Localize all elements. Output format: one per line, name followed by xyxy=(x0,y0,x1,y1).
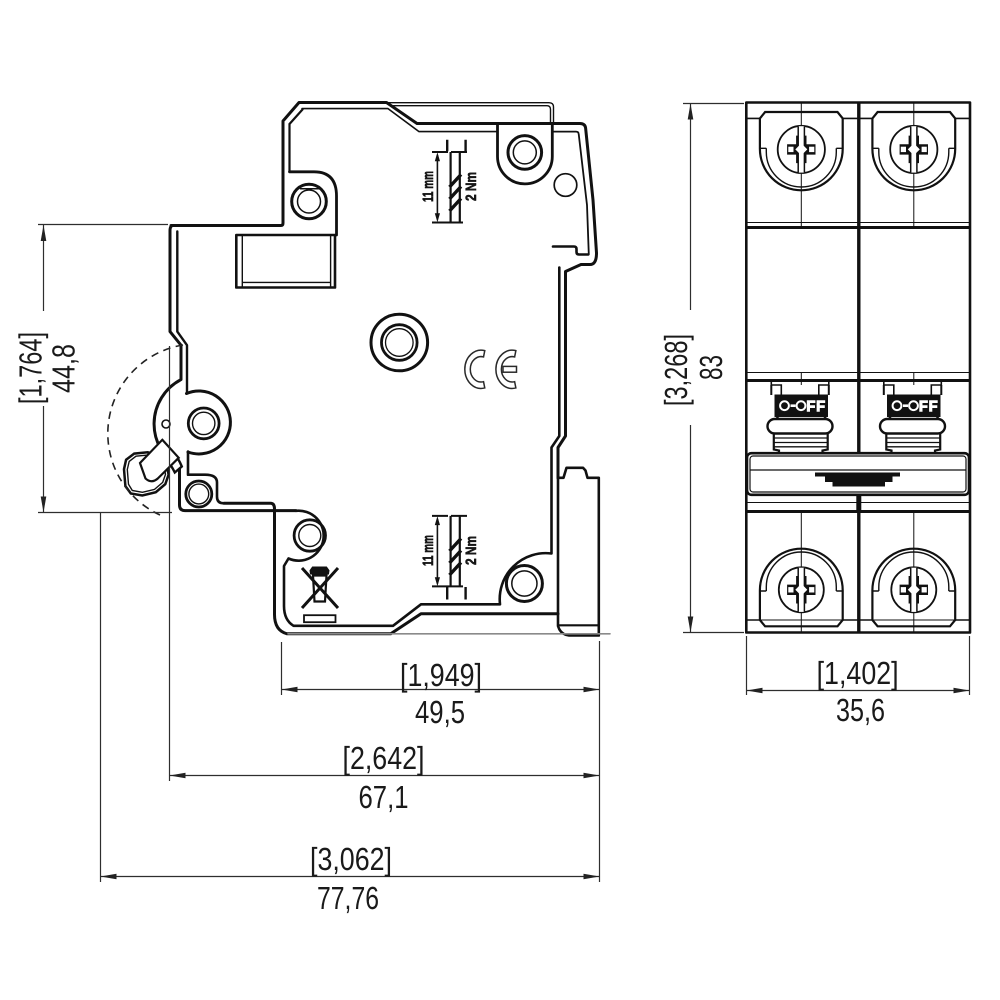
terminal depth symbol top xyxy=(420,140,480,223)
side view inner wall lines xyxy=(177,109,589,504)
extension lines xyxy=(38,224,168,226)
label plate rect xyxy=(304,615,336,622)
bottom-right boss circles xyxy=(506,566,542,602)
small boss circles xyxy=(186,481,212,507)
svg-text:[1,402]: [1,402] xyxy=(817,655,899,691)
top screw pole1 xyxy=(778,126,825,173)
lever boot xyxy=(155,444,182,473)
svg-text:[1,949]: [1,949] xyxy=(400,657,482,693)
toggle handle pole2 xyxy=(880,417,945,454)
central rivet xyxy=(371,314,428,371)
section lines xyxy=(746,223,970,621)
inner contour: boss lobe, inner bottom, inner right xyxy=(284,268,559,626)
svg-text:11 mm: 11 mm xyxy=(420,171,437,202)
top terminal pocket pole2 xyxy=(859,112,970,190)
top screw pole2 xyxy=(890,126,937,173)
dim line 35.6 xyxy=(747,690,970,692)
OFF label pole1 xyxy=(775,395,828,417)
svg-text:[3,062]: [3,062] xyxy=(310,841,392,877)
svg-text:2 Nm: 2 Nm xyxy=(463,172,480,201)
svg-text:67,1: 67,1 xyxy=(359,779,409,815)
lever pivot bowl xyxy=(187,391,231,454)
top-left screw boss pocket xyxy=(290,172,337,235)
top-right screw boss circles xyxy=(508,136,542,170)
divider tick below tie bar xyxy=(746,103,970,633)
svg-text:77,76: 77,76 xyxy=(317,880,379,916)
top terminal pocket pole1 xyxy=(746,112,859,190)
dim line 44.8 xyxy=(43,225,45,513)
top-right screw boss pocket xyxy=(498,124,553,184)
svg-text:[2,642]: [2,642] xyxy=(343,740,425,776)
bottom screw pole2 xyxy=(891,567,936,612)
svg-text:2 Nm: 2 Nm xyxy=(463,536,480,565)
lever knob xyxy=(124,452,169,495)
svg-text:49,5: 49,5 xyxy=(415,694,465,730)
WEEE symbol xyxy=(302,567,338,608)
side view main body outline xyxy=(154,103,596,511)
svg-text:44,8: 44,8 xyxy=(46,344,82,393)
svg-text:[3,268]: [3,268] xyxy=(658,334,694,406)
plain hole top right xyxy=(554,174,577,197)
terminal depth symbol bottom xyxy=(420,516,480,600)
lever pivot circles xyxy=(188,408,219,439)
recess rectangle xyxy=(236,235,335,288)
dimension arrowheads xyxy=(41,104,970,880)
pole divider xyxy=(857,103,860,633)
toggle escutcheon pole1 xyxy=(771,381,829,396)
OFF label pole2 xyxy=(888,395,941,417)
dim line 67.1 xyxy=(170,775,600,777)
pole center lines xyxy=(801,103,914,633)
toggle handle pole1 xyxy=(768,417,833,454)
hook ledge (din rail notch) xyxy=(553,247,588,255)
svg-text:11 mm: 11 mm xyxy=(420,535,437,566)
handle tie bar xyxy=(747,453,969,495)
dimension texts xyxy=(12,332,898,916)
svg-text:35,6: 35,6 xyxy=(836,692,885,728)
dim line 49.5 xyxy=(282,689,600,691)
top-left screw boss circles xyxy=(292,184,327,219)
din clip block xyxy=(558,468,599,636)
bottom-left boss circles xyxy=(294,520,325,551)
front body outline xyxy=(746,103,970,633)
lever stem shaft xyxy=(140,440,179,481)
top-left boss chord xyxy=(301,188,319,190)
toggle travel dashed arc xyxy=(108,345,183,515)
bottom screw pole1 xyxy=(779,567,824,612)
svg-text:[1,764]: [1,764] xyxy=(12,332,48,404)
toggle escutcheon pole2 xyxy=(884,381,942,396)
top lip flange xyxy=(388,103,554,122)
outer foot and bottom edge xyxy=(224,503,558,634)
dim line 77.76 xyxy=(101,876,600,878)
bottom terminal pocket pole2 xyxy=(859,549,970,627)
toggle lever xyxy=(124,440,182,496)
pivot dot xyxy=(162,420,170,428)
svg-text:83: 83 xyxy=(693,355,729,380)
bottom terminal pocket pole1 xyxy=(746,549,859,627)
CE mark xyxy=(465,350,517,388)
bottom shadow line xyxy=(288,633,610,635)
